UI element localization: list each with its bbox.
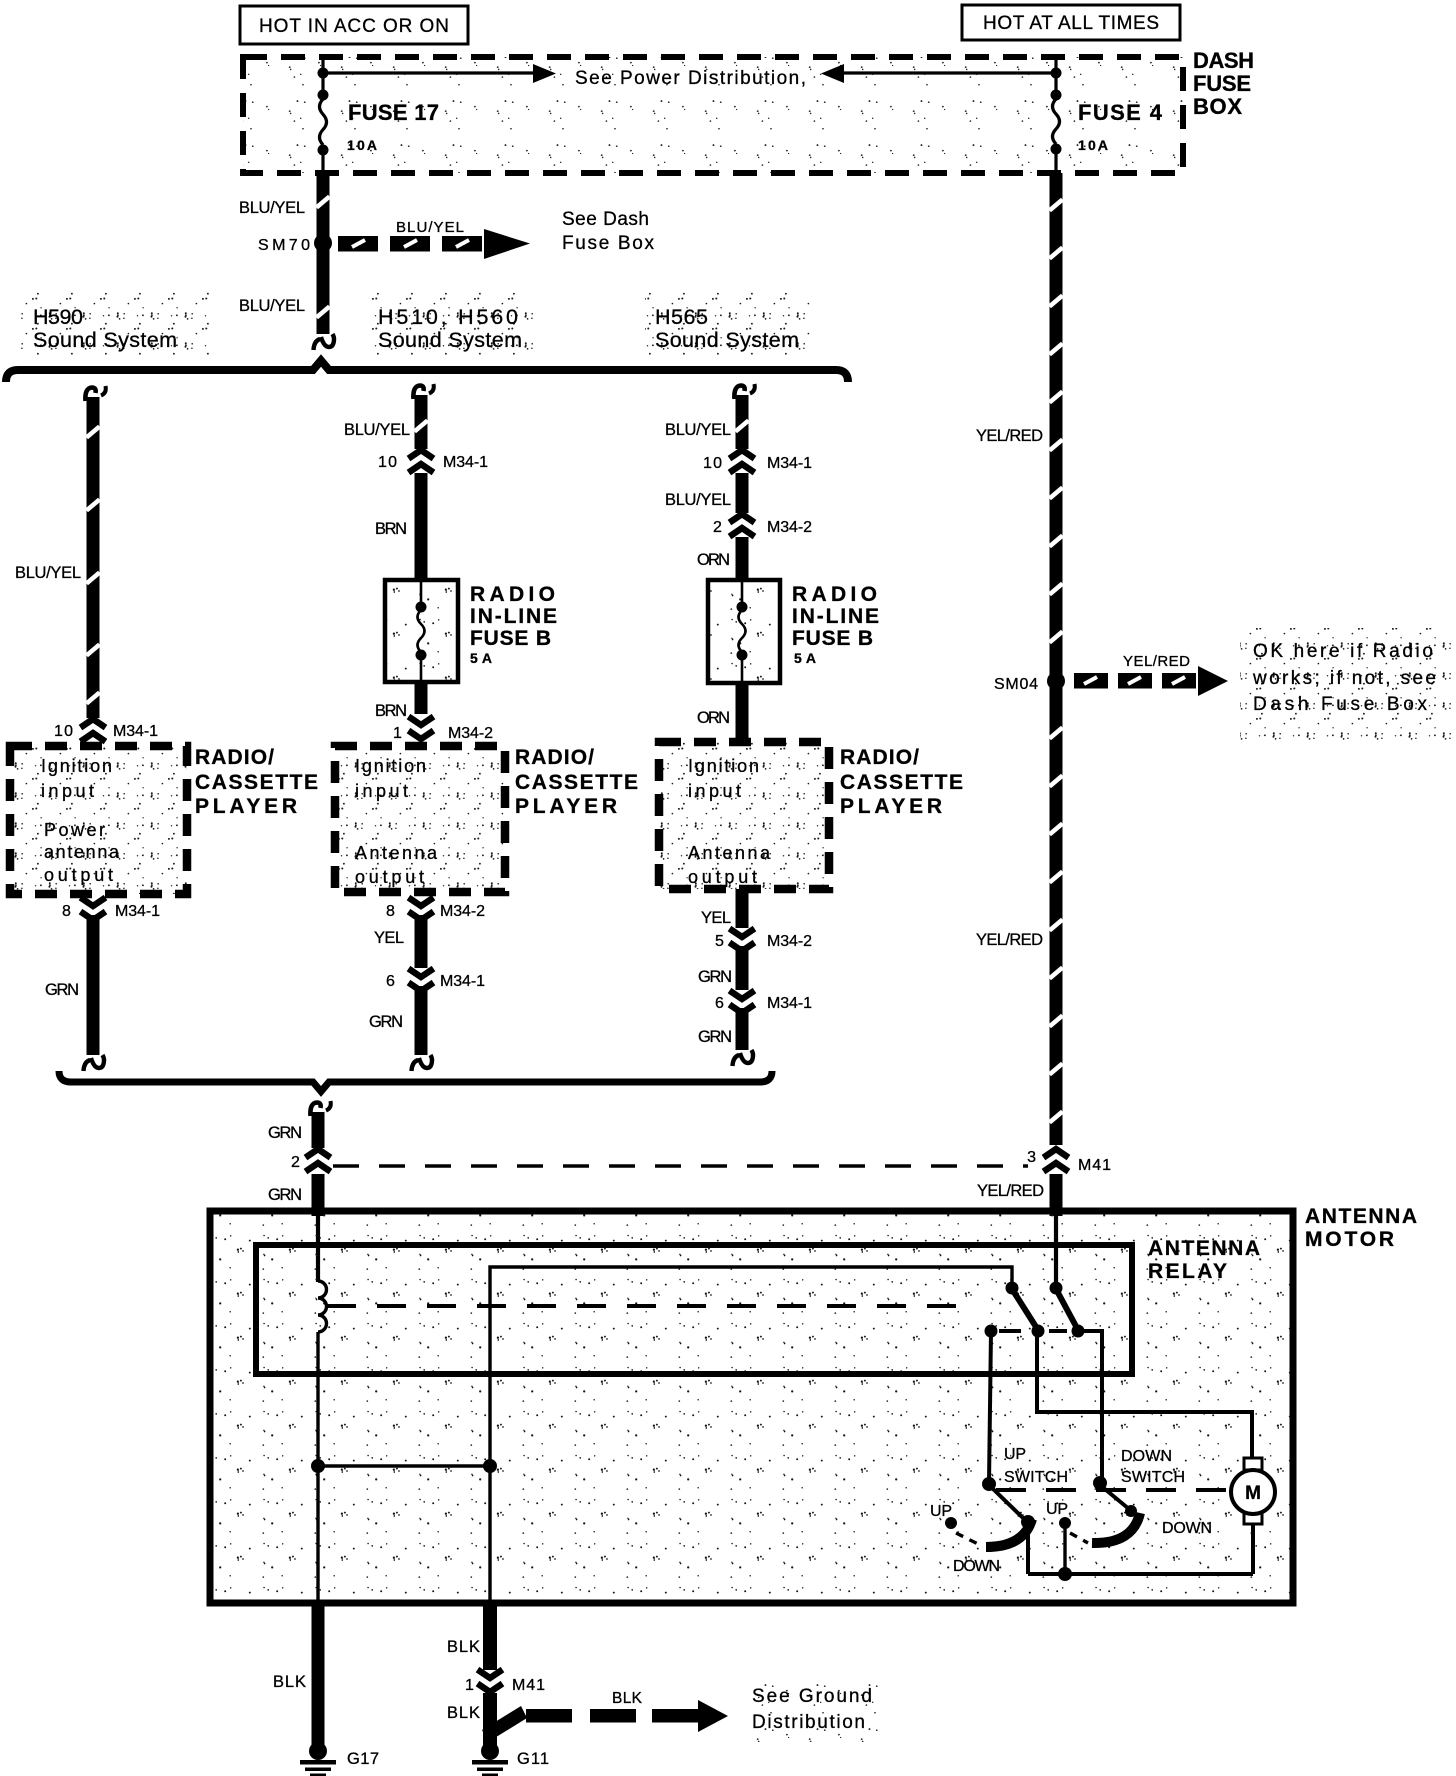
svg-text:BRN: BRN (375, 702, 407, 720)
svg-text:G11: G11 (517, 1750, 549, 1768)
svg-text:YEL: YEL (374, 929, 404, 947)
wire YEL/RED to relay contact (1054, 1216, 1058, 1288)
svg-text:BLK: BLK (612, 1690, 643, 1707)
svg-text:RADIO/: RADIO/ (195, 746, 274, 769)
wire GRN mid branch3 (736, 946, 749, 990)
node: relay contact 1 (1032, 1325, 1045, 1338)
down switch elbow (1125, 1505, 1137, 1517)
wire BLU/YEL branch1 (87, 397, 100, 718)
svg-text:GRN: GRN (698, 968, 732, 986)
svg-text:Ignition: Ignition (41, 756, 112, 776)
svg-text:FUSE B: FUSE B (792, 627, 873, 650)
svg-text:GRN: GRN (698, 1028, 732, 1046)
wire below coil (316, 1332, 319, 1601)
up switch common contact (1021, 1515, 1035, 1529)
svg-text:Fuse Box: Fuse Box (562, 233, 655, 254)
up switch dashed throw (956, 1533, 982, 1546)
connector pin 5 M34-2 (branch3) (730, 929, 755, 938)
svg-text:IN-LINE: IN-LINE (470, 605, 557, 628)
svg-text:SM70: SM70 (258, 237, 310, 254)
svg-text:M34-1: M34-1 (767, 455, 812, 472)
svg-text:RADIO/: RADIO/ (515, 746, 594, 769)
text: See Ground Distribution (740, 1672, 890, 1742)
svg-text:UP: UP (1004, 1446, 1026, 1463)
wire end hook (321, 334, 334, 347)
svg-text:ORN: ORN (697, 551, 730, 569)
svg-text:ORN: ORN (697, 709, 730, 727)
fuse 17 element (320, 99, 327, 145)
wire BLU/YEL mid branch3 (736, 473, 749, 513)
svg-text:GRN: GRN (268, 1186, 302, 1204)
wire GRN merged (312, 1112, 325, 1148)
svg-text:Sound System: Sound System (33, 328, 177, 352)
svg-text:CASSETTE: CASSETTE (195, 771, 318, 794)
label: H590 Sound System (20, 292, 210, 356)
svg-text:antenna: antenna (44, 842, 120, 862)
wire BLU/YEL branch3 (736, 395, 749, 449)
svg-text:M41: M41 (1078, 1157, 1111, 1174)
svg-text:M: M (1245, 1483, 1261, 1504)
relay contact pivot 1 (1006, 1282, 1019, 1295)
node: jumper right (483, 1459, 497, 1473)
svg-text:H565: H565 (655, 305, 708, 329)
svg-text:BLU/YEL: BLU/YEL (15, 564, 81, 582)
down switch arm (1100, 1485, 1129, 1509)
internal jumper (318, 1464, 490, 1467)
svg-text:HOT AT ALL TIMES: HOT AT ALL TIMES (983, 13, 1159, 34)
svg-text:DOWN: DOWN (1121, 1448, 1172, 1465)
wire YEL/RED from fuse 4 (1050, 173, 1063, 1145)
connector pin 6 M34-1 (branch3) (730, 991, 755, 1000)
svg-text:Sound System: Sound System (378, 328, 522, 352)
svg-text:UP: UP (1046, 1501, 1068, 1518)
svg-text:Ignition: Ignition (355, 756, 426, 776)
svg-text:M34-1: M34-1 (767, 995, 812, 1012)
svg-text:YEL/RED: YEL/RED (976, 931, 1043, 949)
wire BLK to G17 (312, 1603, 325, 1748)
connector pin 1 M34-2 (branch2) (409, 717, 434, 726)
bus brace (bottom) (59, 1071, 772, 1092)
svg-text:RADIO/: RADIO/ (840, 746, 919, 769)
relay contact arm 2 (1056, 1289, 1078, 1330)
relay contact pivot 2 (1050, 1282, 1063, 1295)
branch1 wire bottom hook (91, 1055, 104, 1068)
connector pin 2 M34-2 (branch3) (730, 514, 755, 523)
svg-text:M34-1: M34-1 (440, 973, 485, 990)
svg-text:works; if not, see: works; if not, see (1252, 668, 1436, 689)
svg-text:BLU/YEL: BLU/YEL (396, 219, 464, 236)
svg-text:See Dash: See Dash (562, 209, 649, 230)
svg-text:FUSE B: FUSE B (470, 627, 551, 650)
svg-text:5A: 5A (794, 650, 816, 666)
svg-text:BRN: BRN (375, 520, 407, 538)
svg-text:H590: H590 (33, 305, 83, 329)
svg-text:M34-2: M34-2 (448, 725, 493, 742)
svg-text:YEL/RED: YEL/RED (1123, 653, 1190, 670)
wire GRN branch2 (415, 986, 428, 1055)
svg-text:G17: G17 (347, 1750, 379, 1768)
internal rail (490, 1267, 1012, 1601)
svg-text:OK here if Radio: OK here if Radio (1253, 641, 1433, 662)
radio/cassette player 3 (dashed box) (659, 742, 829, 889)
node: relay contact 2 (1072, 1325, 1085, 1338)
node: F4 lower terminal (1051, 144, 1062, 155)
svg-text:IN-LINE: IN-LINE (792, 605, 879, 628)
svg-text:DASH: DASH (1193, 48, 1254, 73)
svg-text:YEL: YEL (701, 909, 731, 927)
svg-text:6: 6 (386, 973, 395, 990)
svg-text:BLK: BLK (273, 1673, 306, 1691)
svg-text:M34-1: M34-1 (113, 723, 158, 740)
svg-text:BLU/YEL: BLU/YEL (665, 491, 731, 509)
branch2 wire bottom hook (419, 1055, 432, 1068)
wire: throw-left to up switch (989, 1331, 991, 1483)
svg-text:GRN: GRN (268, 1124, 302, 1142)
svg-text:5: 5 (715, 933, 724, 950)
svg-text:10: 10 (703, 455, 722, 472)
down switch UP throw contact (1059, 1517, 1071, 1529)
dashed wire arrow: see ground distribution (482, 1706, 527, 1742)
node SM70 (314, 234, 332, 252)
connector pin 2 M41 (306, 1149, 331, 1158)
svg-text:GRN: GRN (369, 1013, 403, 1031)
label box: HOT AT ALL TIMES (962, 5, 1180, 40)
wire: contact1 to motor top (1037, 1331, 1252, 1458)
branch3 wire top hook (734, 386, 744, 400)
wire BLK to M41 pin1 (483, 1603, 497, 1670)
wire YEL/RED into motor box (1050, 1174, 1063, 1216)
svg-text:Distribution: Distribution (752, 1712, 865, 1733)
svg-text:1: 1 (465, 1677, 474, 1694)
ground G11 (481, 1742, 499, 1760)
svg-text:FUSE 4: FUSE 4 (1078, 100, 1163, 125)
arrow: see power distribution (from fuse 17) (328, 71, 533, 74)
svg-text:BOX: BOX (1193, 94, 1242, 119)
wire BLK to G11 (483, 1693, 497, 1748)
node SM04 (1047, 672, 1065, 690)
svg-text:RADIO: RADIO (470, 583, 555, 606)
connector pin 10 M34-1 (branch3) (730, 450, 755, 459)
fuse F17 feed wire (321, 57, 324, 99)
svg-text:10A: 10A (1078, 137, 1108, 153)
svg-text:HOT IN ACC OR ON: HOT IN ACC OR ON (259, 16, 449, 37)
radio in-line fuse B (branch3) (708, 580, 780, 683)
svg-text:See Power Distribution,: See Power Distribution, (575, 68, 806, 89)
svg-text:GRN: GRN (45, 981, 79, 999)
wire GRN branch1 (87, 915, 100, 1055)
svg-text:M34-2: M34-2 (767, 519, 812, 536)
connector pin 10 M34-1 (branch2) (409, 450, 434, 459)
svg-text:FUSE: FUSE (1193, 71, 1251, 96)
svg-text:See Ground: See Ground (752, 1686, 872, 1707)
wire GRN lower branch3 (736, 1008, 749, 1050)
svg-text:10: 10 (378, 454, 397, 471)
merged GRN wire top hook (310, 1103, 320, 1117)
branch3 wire bottom hook (740, 1050, 753, 1063)
node: bottom rail junction (1058, 1567, 1072, 1581)
wire GRN into motor box (312, 1174, 325, 1216)
wire: motor bottom to rail (1251, 1523, 1255, 1574)
svg-text:DOWN: DOWN (1162, 1520, 1212, 1537)
wire: down switch throw to bottom rail (1063, 1528, 1066, 1572)
node: F17 upper terminal (318, 90, 329, 101)
down switch moving blade (1092, 1513, 1140, 1543)
svg-text:MOTOR: MOTOR (1305, 1228, 1394, 1251)
text: OK here if Radio works (1240, 628, 1452, 740)
svg-text:M34-1: M34-1 (443, 454, 488, 471)
up switch pivot (982, 1477, 996, 1491)
svg-text:FUSE 17: FUSE 17 (348, 100, 439, 125)
ground G17 (309, 1742, 327, 1760)
branch1 wire top hook (85, 388, 95, 402)
svg-text:6: 6 (715, 995, 724, 1012)
bottom rail wire (1028, 1572, 1253, 1576)
node: F4 top junction (1051, 68, 1062, 79)
bus brace (top) (6, 361, 848, 383)
wire ORN lower branch3 (736, 683, 749, 742)
node: F4 upper terminal (1051, 90, 1062, 101)
svg-text:Ignition: Ignition (688, 756, 759, 776)
svg-text:ANTENNA: ANTENNA (1148, 1237, 1260, 1260)
node: relay throw left (985, 1325, 998, 1338)
up switch moving blade (986, 1519, 1032, 1547)
wire: up switch to bottom rail (1026, 1526, 1030, 1574)
svg-text:YEL/RED: YEL/RED (976, 427, 1043, 445)
svg-text:SWITCH: SWITCH (1121, 1469, 1185, 1486)
svg-text:10A: 10A (347, 137, 377, 153)
node: F17 top junction (318, 68, 329, 79)
relay mechanical dashed link (327, 1304, 973, 1308)
svg-text:8: 8 (62, 903, 71, 920)
connector pin 10 M34-1 (branch1) (81, 719, 106, 728)
svg-text:UP: UP (930, 1503, 952, 1520)
svg-text:2: 2 (713, 519, 722, 536)
fuse 4 element (1053, 99, 1060, 144)
wire BLU/YEL from fuse 17 (317, 173, 330, 334)
up switch UP throw contact (945, 1517, 957, 1529)
svg-text:Sound System: Sound System (655, 328, 799, 352)
svg-text:2: 2 (291, 1154, 300, 1171)
wire: contact2 to down switch (1078, 1331, 1102, 1483)
svg-text:DOWN: DOWN (953, 1558, 1000, 1575)
down switch pivot (1093, 1476, 1107, 1490)
up switch arm (989, 1485, 1023, 1518)
svg-text:8: 8 (386, 903, 395, 920)
svg-text:YEL/RED: YEL/RED (977, 1182, 1044, 1200)
svg-text:SWITCH: SWITCH (1004, 1469, 1068, 1486)
svg-text:M34-2: M34-2 (440, 903, 485, 920)
svg-text:Power: Power (44, 820, 105, 840)
antenna relay box (256, 1245, 1132, 1374)
connector pin 1 M41 (478, 1670, 503, 1679)
svg-text:5A: 5A (470, 650, 492, 666)
svg-text:M34-1: M34-1 (115, 903, 160, 920)
svg-text:BLU/YEL: BLU/YEL (239, 297, 305, 315)
motor M1 (1244, 1458, 1262, 1470)
dashed wire arrow: see dash fuse box (338, 236, 378, 252)
dash fuse box (dashed outline) (243, 57, 1183, 173)
connector pin 3 M41 (1044, 1149, 1069, 1158)
antenna motor box (210, 1211, 1293, 1603)
relay throw dashed line (999, 1329, 1021, 1333)
dashed wire arrow: OK here if radio works (1074, 673, 1108, 689)
svg-text:3: 3 (1027, 1149, 1036, 1166)
relay coil (318, 1281, 327, 1332)
svg-text:ANTENNA: ANTENNA (1305, 1205, 1417, 1228)
svg-text:RELAY: RELAY (1148, 1260, 1227, 1283)
svg-text:BLU/YEL: BLU/YEL (665, 421, 731, 439)
svg-text:10: 10 (54, 723, 73, 740)
wire BRN branch2 (415, 473, 428, 580)
radio in-line fuse B (branch2) (385, 580, 458, 682)
switch mechanical dashed link to motor (996, 1488, 1229, 1492)
relay contact arm 1 (1012, 1289, 1038, 1330)
branch2 wire top hook (413, 386, 423, 400)
svg-text:M34-2: M34-2 (767, 933, 812, 950)
fuse F4 feed wire (1054, 57, 1057, 99)
radio/cassette player 2 (dashed box) (335, 746, 505, 892)
label: H510,H560 Sound System (368, 292, 533, 356)
connector pin 8 M34-1 (branch1) (81, 898, 106, 907)
wire ORN branch3 (736, 537, 749, 580)
label: H565 Sound System (645, 292, 810, 356)
svg-text:BLK: BLK (447, 1704, 480, 1722)
svg-text:RADIO: RADIO (792, 583, 877, 606)
arrow: see power distribution (from fuse 4) (844, 71, 1051, 74)
connector M41 dashed link (333, 1164, 1028, 1168)
svg-text:1: 1 (393, 725, 402, 742)
wire YEL branch2 (415, 915, 428, 968)
down switch dashed throw (1070, 1533, 1088, 1543)
node: F17 lower terminal (318, 145, 329, 156)
svg-text:CASSETTE: CASSETTE (515, 771, 638, 794)
connector pin 8 M34-2 (branch2) (409, 898, 434, 907)
svg-text:BLU/YEL: BLU/YEL (239, 199, 305, 217)
svg-text:BLU/YEL: BLU/YEL (344, 421, 410, 439)
svg-text:SM04: SM04 (994, 676, 1038, 693)
radio/cassette player 1 (dashed box) (10, 746, 187, 894)
wire YEL branch3 (736, 889, 749, 928)
wire BLU/YEL branch2 (415, 395, 428, 449)
svg-text:CASSETTE: CASSETTE (840, 771, 963, 794)
connector pin 6 M34-1 (branch2) (409, 969, 434, 978)
svg-text:M41: M41 (512, 1677, 545, 1694)
wire BRN lower branch2 (415, 682, 428, 714)
node: jumper left (311, 1459, 325, 1473)
label box: HOT IN ACC OR ON (240, 6, 468, 44)
svg-text:BLK: BLK (447, 1638, 480, 1656)
